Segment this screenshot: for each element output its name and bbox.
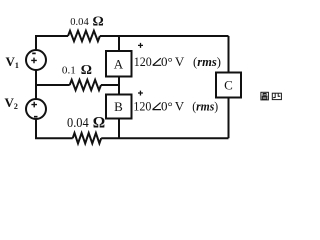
- wire: top rail to load A: [118, 36, 120, 51]
- svg-text:0.1: 0.1: [62, 65, 76, 77]
- svg-text:C: C: [224, 78, 233, 93]
- svg-text:Ω: Ω: [81, 63, 92, 78]
- load box B: [106, 95, 132, 119]
- glyph: tu (figure): [261, 92, 269, 100]
- voltage source V1: [26, 50, 46, 70]
- glyph: si (four): [272, 93, 281, 99]
- plus sign (load B voltage polarity): [138, 91, 143, 96]
- svg-text:120: 120: [133, 98, 151, 113]
- svg-text:0°: 0°: [161, 54, 173, 69]
- wire: V2 bottom to bottom rail: [36, 119, 73, 138]
- resistor 0.04 ohm (top line): [68, 31, 100, 41]
- wire: load A to load B through neutral node: [118, 77, 120, 95]
- svg-text:A: A: [114, 57, 124, 72]
- svg-text:Ω: Ω: [93, 15, 104, 30]
- svg-text:B: B: [114, 99, 123, 114]
- svg-text:V: V: [175, 98, 185, 113]
- voltage label 120/_0 V rms (load A): [134, 54, 221, 69]
- voltage label 120/_0 V rms (load B): [133, 98, 218, 113]
- svg-text:120: 120: [134, 54, 152, 69]
- resistor 0.04 ohm (bottom line): [73, 133, 102, 143]
- voltage source V2: [26, 99, 46, 119]
- caption: Chinese characters "figure four" drawn as strokes: [261, 92, 282, 100]
- svg-text:0.04: 0.04: [67, 115, 89, 130]
- plus sign (load A voltage polarity): [138, 43, 143, 48]
- wire: bottom rail right of resistor: [101, 137, 228, 139]
- wire: middle (neutral) from left rail to node between A and B: [36, 84, 70, 86]
- svg-text:(rms): (rms): [193, 54, 221, 69]
- load box A: [106, 51, 132, 77]
- svg-text:Ω: Ω: [93, 115, 105, 132]
- svg-text:V2: V2: [5, 95, 18, 111]
- wire: load B to bottom rail: [118, 119, 120, 139]
- svg-text:0.04: 0.04: [70, 16, 89, 28]
- wire: right rail top to load C: [228, 36, 230, 73]
- svg-text:(rms): (rms): [192, 98, 218, 113]
- svg-text:V1: V1: [6, 54, 19, 70]
- wire: top rail from node a to right rail: [36, 36, 229, 50]
- resistor 0.1 ohm (middle line): [70, 80, 101, 90]
- wire: load C to bottom rail: [228, 98, 230, 139]
- wire: left rail V1 to V2 with middle tap: [35, 70, 37, 99]
- wire: middle resistor to A/B branch: [101, 84, 119, 86]
- svg-text:0°: 0°: [161, 98, 173, 113]
- load box C: [216, 73, 241, 98]
- svg-text:V: V: [175, 54, 185, 69]
